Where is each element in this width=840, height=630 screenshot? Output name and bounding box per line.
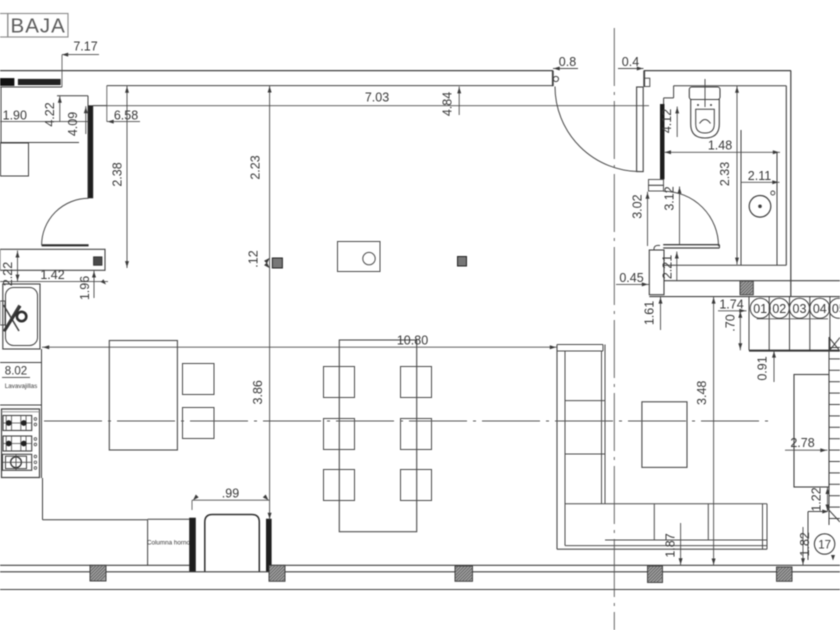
kitchen sink cabinet bbox=[3, 284, 40, 349]
svg-text:3.86: 3.86 bbox=[251, 380, 265, 404]
hatched column C1 bbox=[90, 565, 106, 581]
sink niche partition bbox=[740, 130, 742, 265]
bathroom right wall inner bbox=[785, 86, 787, 266]
svg-text:8.02: 8.02 bbox=[5, 366, 27, 378]
svg-text:.99: .99 bbox=[222, 487, 239, 501]
dim 4.12 bbox=[676, 107, 678, 138]
burner module 1 bbox=[3, 416, 32, 431]
axis horizontal (dash-dot) bbox=[44, 420, 770, 422]
dim 1.82 bbox=[802, 527, 804, 565]
stove unit bbox=[2, 409, 40, 478]
free column K2 bbox=[458, 257, 467, 267]
toilet tank bbox=[689, 87, 720, 100]
svg-text:1.48: 1.48 bbox=[708, 139, 732, 153]
circled 17 bbox=[814, 534, 834, 554]
dim line 7.03 bbox=[93, 105, 649, 107]
left room door D2 leaf bbox=[42, 244, 89, 246]
top wall inner face left segment bbox=[0, 86, 62, 88]
svg-text:.70: .70 bbox=[724, 314, 738, 331]
top wall inner face main segment bbox=[107, 85, 553, 87]
stair treads (top flight) bbox=[748, 297, 750, 351]
dim 0.4 bbox=[618, 68, 644, 70]
wall piece below door bbox=[649, 250, 664, 295]
svg-text:1.87: 1.87 bbox=[663, 533, 677, 557]
svg-text:10.80: 10.80 bbox=[397, 334, 428, 348]
coffee table bbox=[642, 402, 687, 468]
bottom wall band bbox=[0, 564, 190, 566]
stair step number circles bbox=[750, 298, 770, 318]
dim 2.22 bbox=[17, 251, 19, 282]
sofa L-shape bbox=[556, 345, 558, 550]
dim 1.74 bbox=[718, 310, 747, 312]
kitchen counter bottom run bbox=[42, 478, 44, 520]
svg-text:03: 03 bbox=[793, 302, 807, 316]
dim 7.17 bbox=[62, 54, 99, 56]
stair side flight down bbox=[828, 337, 830, 525]
oven column box bbox=[148, 518, 190, 520]
svg-text:3.12: 3.12 bbox=[663, 186, 677, 210]
top wall inner face right segment bbox=[674, 85, 787, 87]
svg-text:0.91: 0.91 bbox=[755, 356, 769, 380]
burner module 2 bbox=[3, 436, 32, 451]
dim 2.21 bbox=[676, 252, 678, 281]
left room counter line bbox=[0, 142, 79, 144]
basin tap bbox=[771, 191, 775, 195]
svg-text:02: 02 bbox=[772, 302, 786, 316]
svg-text:1.96: 1.96 bbox=[78, 276, 92, 300]
dim 3.48 bbox=[713, 297, 715, 566]
small arrow near wall bbox=[831, 555, 835, 561]
svg-text:2.11: 2.11 bbox=[748, 169, 771, 183]
svg-text:7.03: 7.03 bbox=[365, 91, 389, 105]
svg-text:05: 05 bbox=[832, 302, 840, 316]
bathroom door D3 swing arc bbox=[664, 191, 719, 246]
stair direction cross bbox=[829, 338, 840, 352]
dim .99 bbox=[192, 499, 270, 501]
dim 2.78 bbox=[785, 449, 828, 451]
title box PLANTA BAJA bbox=[0, 14, 8, 38]
svg-text:6.58: 6.58 bbox=[114, 109, 138, 123]
left room partition wall (solid) bbox=[89, 106, 93, 198]
dim 0.8 bbox=[553, 68, 578, 70]
svg-text:.12: .12 bbox=[247, 250, 261, 267]
hatched column C2 bbox=[269, 565, 285, 581]
svg-text:1.61: 1.61 bbox=[642, 301, 656, 325]
svg-text:2.23: 2.23 bbox=[249, 155, 263, 179]
dim .70 bbox=[739, 311, 741, 351]
dishwasher compartment bbox=[0, 362, 42, 364]
round basin bbox=[749, 196, 771, 218]
dim 1.87 bbox=[680, 523, 682, 565]
dim 10.80 bbox=[42, 346, 557, 348]
left exterior wall edge bbox=[0, 87, 2, 143]
svg-text:2.33: 2.33 bbox=[718, 162, 732, 186]
dim 3.02 bbox=[647, 192, 649, 246]
centre table with plate bbox=[338, 242, 381, 272]
svg-text:1.82: 1.82 bbox=[798, 532, 812, 556]
stove knobs bbox=[34, 418, 37, 421]
svg-text:04: 04 bbox=[813, 302, 827, 316]
svg-text:4.22: 4.22 bbox=[43, 102, 57, 126]
stool 2 bbox=[183, 408, 215, 439]
dim 1.96 bbox=[93, 271, 95, 299]
svg-text:7.17: 7.17 bbox=[73, 40, 97, 54]
hatched column C5 bbox=[777, 567, 793, 581]
svg-text:2.38: 2.38 bbox=[110, 162, 124, 186]
dim 4.09 bbox=[85, 106, 87, 134]
dining table bbox=[339, 340, 416, 532]
lower landing lines bbox=[807, 512, 809, 561]
wall pier P2 bbox=[266, 519, 271, 572]
svg-text:3.02: 3.02 bbox=[630, 194, 644, 218]
dining chairs bbox=[324, 367, 355, 398]
svg-text:17: 17 bbox=[818, 539, 831, 551]
hatched column C4 bbox=[648, 566, 663, 583]
counter edge bbox=[41, 349, 43, 478]
door jamb at x=644 bbox=[643, 71, 645, 87]
under-stair shaft bbox=[794, 375, 829, 488]
kitchen faucet bbox=[0, 301, 5, 325]
svg-text:Columna horno: Columna horno bbox=[147, 540, 191, 547]
top exterior wall outer face bbox=[0, 70, 553, 72]
burner module 3 (large) bbox=[3, 454, 32, 470]
door jamb cap at x=553 bbox=[552, 71, 554, 87]
entry door D1 leaf bbox=[637, 87, 644, 172]
dim 4.22 bbox=[59, 96, 61, 122]
bathroom partition wall (solid) bbox=[660, 104, 664, 179]
dim 1.61 bbox=[660, 297, 662, 330]
bathroom door D3 leaf bbox=[663, 244, 719, 246]
dim 1.90 bbox=[0, 121, 88, 123]
svg-text:3.48: 3.48 bbox=[695, 381, 709, 405]
svg-text:BAJA: BAJA bbox=[11, 15, 66, 38]
hinge bump entry door bbox=[553, 76, 558, 81]
kitchen island bbox=[109, 341, 177, 451]
svg-text:1.90: 1.90 bbox=[3, 109, 27, 123]
svg-text:2.21: 2.21 bbox=[660, 255, 674, 279]
svg-text:0.8: 0.8 bbox=[559, 55, 576, 69]
svg-text:1.22: 1.22 bbox=[810, 487, 824, 511]
bathroom lower interior line bbox=[663, 264, 786, 266]
svg-text:4.12: 4.12 bbox=[660, 109, 674, 133]
stool 1 bbox=[183, 364, 215, 395]
washing machine bbox=[1, 143, 29, 176]
svg-text:Lavavajillas: Lavavajillas bbox=[5, 383, 38, 390]
niche inner face bbox=[776, 152, 778, 265]
dim 6.58 bbox=[107, 121, 140, 123]
toilet bowl bbox=[691, 100, 720, 139]
bathroom right wall outer bbox=[790, 71, 792, 297]
column in bench bbox=[94, 257, 103, 266]
window glazing band top-left bbox=[0, 79, 14, 86]
dim 1.48 bbox=[664, 151, 780, 153]
dim 3.12 bbox=[679, 187, 681, 245]
dim 1.22 bbox=[827, 487, 829, 512]
bathroom door jamb blocks bbox=[649, 180, 664, 186]
wall step left of facade bbox=[57, 95, 88, 97]
entry door D1 swing arc bbox=[555, 87, 640, 172]
D3 hinge hook bbox=[654, 245, 660, 250]
svg-text:1.42: 1.42 bbox=[40, 268, 64, 282]
svg-text:1.74: 1.74 bbox=[719, 297, 743, 311]
svg-text:0.4: 0.4 bbox=[622, 55, 639, 69]
dim 4.84 bbox=[458, 87, 460, 116]
svg-text:0.45: 0.45 bbox=[619, 271, 643, 285]
svg-text:01: 01 bbox=[753, 302, 767, 316]
svg-text:4.09: 4.09 bbox=[66, 112, 80, 136]
dim 1.42 bbox=[0, 281, 108, 283]
axis vertical (dash-dot) bbox=[613, 28, 615, 630]
kitchen sink basin bbox=[6, 288, 38, 346]
left room door D2 swing arc bbox=[42, 198, 89, 245]
hatched column C3 bbox=[455, 566, 473, 581]
dim 0.91 bbox=[773, 351, 775, 382]
hall corner step to bathroom bbox=[673, 86, 675, 98]
svg-text:2.22: 2.22 bbox=[1, 262, 15, 286]
underline below step numbers bbox=[757, 318, 828, 320]
dim 2.23 / .12 / 3.86 line bbox=[269, 86, 271, 520]
dim 2.33 bbox=[736, 86, 738, 265]
dim 2.38 bbox=[126, 86, 128, 268]
free column K1 (.12) bbox=[272, 258, 282, 268]
hatched column C6 (stair wall) bbox=[740, 281, 753, 295]
toilet centreline bbox=[704, 79, 706, 107]
pillar with rounded top (.99 opening) bbox=[205, 515, 259, 572]
dim 0.45 bbox=[616, 283, 649, 285]
svg-text:4.84: 4.84 bbox=[441, 92, 455, 116]
svg-text:2.78: 2.78 bbox=[790, 436, 814, 450]
dim 2.11 bbox=[741, 181, 780, 183]
wall pier P1 bbox=[190, 518, 196, 572]
stair-hall wall band bbox=[664, 280, 840, 282]
low counter / bench below door bbox=[0, 249, 105, 270]
